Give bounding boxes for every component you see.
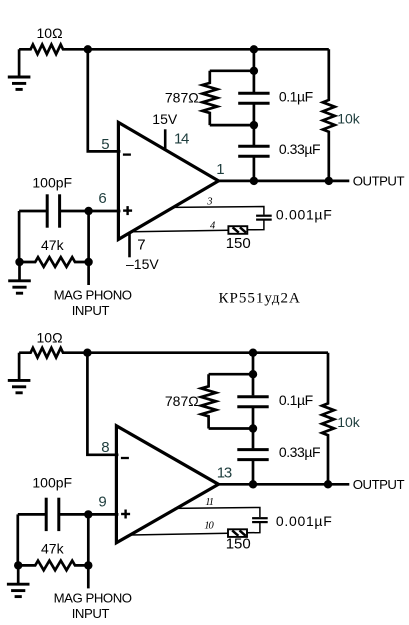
capacitor C2 0.33uF	[238, 146, 269, 156]
wire: non-inverting input line	[88, 513, 118, 516]
wire: junction down to inverting input	[87, 353, 118, 455]
svg-text:0.33µF: 0.33µF	[279, 444, 320, 460]
svg-text:0.33µF: 0.33µF	[279, 141, 320, 157]
wire: between caps	[253, 104, 256, 145]
resistor R10 150 (hatched box)	[228, 529, 247, 537]
node/junction dot (R1 / supply rail / pin wire)	[84, 45, 92, 53]
node dot: 47k right	[84, 561, 92, 569]
wire: middle branch vertical	[253, 49, 256, 92]
wire: between caps	[252, 408, 255, 449]
capacitor C3 0.1uF	[238, 93, 269, 103]
svg-text:3: 3	[206, 197, 212, 208]
wire: left vertical (cap to 47k)	[18, 211, 21, 262]
wire: comp pin 10 (thin) with 150 resistor	[131, 533, 228, 535]
svg-text:INPUT: INPUT	[72, 606, 110, 621]
ground GND2 (input network)	[8, 262, 31, 293]
minus sign (inverting input)	[123, 153, 131, 155]
node dot: 10k / output line	[325, 177, 333, 185]
svg-text:150: 150	[226, 535, 251, 552]
wire: non-inverting input line	[89, 210, 121, 213]
svg-text:КР551уд2А: КР551уд2А	[219, 291, 301, 307]
svg-text:10Ω: 10Ω	[37, 25, 63, 41]
wire: MAG PHONO INPUT stub	[87, 565, 90, 588]
wire: input junction down to 47k	[87, 211, 90, 262]
node dot: top rail / middle branch	[250, 45, 258, 53]
svg-text:–15V: –15V	[126, 256, 159, 272]
wire: op-amp output to OUTPUT terminal	[219, 180, 350, 183]
svg-text:INPUT: INPUT	[72, 303, 110, 318]
svg-text:9: 9	[98, 493, 106, 510]
plus sign (non-inverting input)	[123, 206, 132, 215]
ground GND4 (input network)	[7, 565, 30, 596]
ground GND1 (supply return, top-left)	[8, 49, 31, 89]
node dot: top rail / middle branch	[249, 349, 257, 357]
resistor R5 150 (hatched box)	[228, 226, 247, 234]
svg-text:47k: 47k	[41, 540, 65, 556]
svg-text:787Ω: 787Ω	[165, 90, 199, 106]
svg-text:7: 7	[137, 236, 145, 253]
node dot: middle branch / output line	[250, 177, 258, 185]
svg-text:100pF: 100pF	[32, 174, 72, 190]
svg-text:6: 6	[98, 190, 106, 207]
svg-text:47k: 47k	[41, 237, 65, 253]
svg-text:11: 11	[205, 497, 213, 508]
node dot: input junction	[84, 207, 92, 215]
svg-text:150: 150	[226, 235, 251, 252]
resistor R3 787&#937;	[210, 69, 254, 72]
svg-text:0.1µF: 0.1µF	[279, 89, 313, 105]
svg-text:MAG PHONO: MAG PHONO	[54, 287, 132, 302]
node dot: 47k right	[84, 258, 92, 266]
resistor R4 10k	[323, 49, 335, 181]
svg-text:787Ω: 787Ω	[165, 393, 199, 409]
svg-text:5: 5	[101, 136, 109, 153]
svg-text:10k: 10k	[337, 111, 361, 127]
resistor R8 787&#937;	[209, 373, 253, 376]
wire: input junction down to 47k	[87, 514, 90, 565]
plus sign (non-inverting input)	[121, 510, 130, 519]
resistor R1 10&#937;	[19, 45, 88, 55]
resistor R7 47k	[18, 561, 89, 571]
svg-text:0.1µF: 0.1µF	[279, 392, 313, 408]
wire: right of 100pF	[61, 210, 89, 213]
svg-text:0.001µF: 0.001µF	[276, 513, 333, 529]
node dot: input junction	[84, 510, 92, 518]
resistor R9 10k	[322, 353, 334, 485]
wire: horizontal top rail	[87, 351, 328, 354]
minus sign (inverting input)	[121, 457, 129, 459]
resistor R2 47k	[19, 257, 89, 267]
capacitor C4 0.001uF (comp)	[256, 216, 272, 220]
node dot: 787 top	[250, 67, 258, 75]
node dot: 10k / output line	[324, 480, 332, 488]
svg-text:10k: 10k	[337, 414, 361, 430]
wire: op-amp output to OUTPUT terminal	[219, 483, 350, 486]
node dot: 787 top	[249, 370, 257, 378]
wire: comp pin 3 (thin)	[172, 207, 264, 215]
svg-text:100pF: 100pF	[32, 475, 72, 491]
node dot: 787 bottom	[249, 424, 257, 432]
svg-text:14: 14	[174, 130, 189, 147]
capacitor C7 0.1uF	[237, 397, 268, 407]
op-amp U2 triangle	[116, 426, 218, 543]
wire: left of 100pF	[18, 513, 45, 516]
wire: junction down to inverting input	[88, 49, 121, 151]
capacitor C1 100pF	[47, 194, 59, 227]
svg-text:OUTPUT: OUTPUT	[353, 477, 405, 492]
node dot: 47k left	[15, 258, 23, 266]
op-amp U1 triangle	[118, 122, 218, 239]
wire: cap to output line	[252, 461, 255, 485]
node dot: 787 bottom	[250, 121, 258, 129]
node dot: middle branch / output line	[249, 480, 257, 488]
ground GND3 (supply return, top-left)	[8, 353, 31, 393]
capacitor C5 100pF	[46, 498, 59, 531]
resistor R6 10&#937;	[19, 348, 87, 358]
svg-text:4: 4	[210, 221, 216, 232]
svg-text:8: 8	[101, 439, 109, 456]
svg-text:MAG PHONO: MAG PHONO	[54, 591, 132, 606]
capacitor C8 0.001uF (comp)	[252, 518, 268, 522]
wire: cap to output line	[253, 157, 256, 181]
capacitor C6 0.33uF	[237, 450, 268, 460]
wire: left of 100pF	[19, 210, 46, 213]
wire: comp pin 11 (thin)	[174, 508, 260, 518]
node dot: 47k left	[14, 561, 22, 569]
svg-text:0.001µF: 0.001µF	[276, 207, 333, 223]
wire: right of 100pF	[60, 513, 89, 516]
node/junction dot (R6 / supply rail / pin wire)	[83, 349, 91, 357]
wire: middle branch vertical	[252, 353, 255, 396]
wire: MAG PHONO INPUT stub	[87, 262, 90, 285]
wire: left vertical (cap to 47k)	[16, 514, 19, 565]
svg-text:15V: 15V	[152, 111, 178, 127]
wire: horizontal top rail	[88, 48, 329, 51]
pin 14 stub (V+)	[164, 129, 167, 151]
wire: comp pin 4 (thin) with 150 resistor	[132, 230, 228, 232]
svg-text:1: 1	[216, 161, 224, 178]
svg-text:13: 13	[217, 464, 232, 481]
svg-text:OUTPUT: OUTPUT	[353, 174, 405, 189]
svg-text:10Ω: 10Ω	[37, 329, 63, 345]
pin 7 stub (V-)	[128, 232, 131, 257]
